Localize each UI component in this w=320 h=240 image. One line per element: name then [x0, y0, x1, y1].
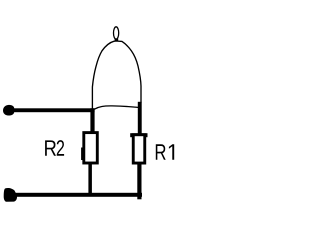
resistor R2 left-edge doubled stroke [81, 148, 83, 161]
lamp tip contact (small square at apex) [115, 39, 119, 42]
R1 top cap bar [130, 133, 147, 137]
wire: top horizontal from J1 to node [11, 108, 95, 112]
lamp base arc [94, 106, 140, 110]
wire: bottom horizontal rail [11, 193, 142, 197]
wire: left vertical down to R2 [90, 108, 94, 133]
lamp DS1 envelope (bell dome) [92, 41, 141, 109]
wire: R2 bottom lead [88, 163, 92, 195]
terminal J1 (top-left blob) [3, 105, 14, 116]
resistor R1 body [133, 135, 145, 163]
wire: R1 bottom lead [137, 164, 141, 200]
terminal J2 (bottom-left blob) [4, 188, 17, 202]
label R1 [156, 144, 174, 159]
lamp top ellipse (filament tip) [114, 27, 119, 39]
wire: R1 top lead from lamp [138, 102, 142, 134]
resistor R2 body [84, 133, 98, 163]
label R2 [45, 140, 64, 156]
